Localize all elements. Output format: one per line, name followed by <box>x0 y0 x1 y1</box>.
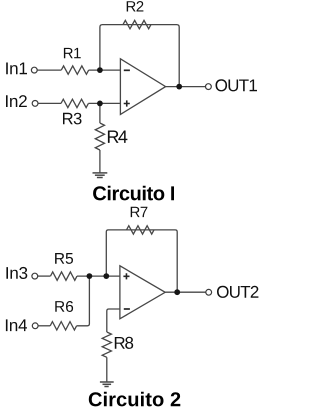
label In3 <box>6 267 27 279</box>
node D junction dot (R7 feedback tap) <box>103 273 109 279</box>
wire op-amp U2 output to OUT2 <box>165 291 206 293</box>
label In2 <box>6 95 27 107</box>
node OUT1 terminal <box>206 84 212 90</box>
label In1 <box>6 63 27 75</box>
wire R8 to ground <box>106 357 108 382</box>
label R7 <box>131 207 148 217</box>
node OUT2 terminal <box>206 289 212 295</box>
label In4 <box>6 319 27 331</box>
node B junction dot (R3/R4 tap) <box>97 101 103 107</box>
label R1 <box>64 48 81 58</box>
node A junction dot (R1/R2 tap) <box>97 67 103 73</box>
resistor R8 <box>102 332 111 357</box>
node feedback tap junction dot 1 <box>176 84 182 90</box>
label OUT2 <box>217 286 258 298</box>
wire node B to R4 <box>99 103 101 123</box>
wire op-amp U2 inverting input to R8 <box>107 309 120 332</box>
wire R4 to ground <box>99 150 101 173</box>
wire R1 to op-amp U1 inverting input <box>89 69 121 71</box>
caption Circuito 2 <box>89 392 181 407</box>
op-amp U1 <box>120 59 165 115</box>
op-amp U2 <box>120 266 165 319</box>
node In2 terminal <box>32 101 38 107</box>
node feedback tap junction dot 2 <box>174 289 180 295</box>
wire feedback loop R7 <box>106 230 177 292</box>
wire In1 to R1 <box>37 69 61 71</box>
op-amp U1 minus sign <box>124 69 130 71</box>
caption Circuito I <box>93 186 174 201</box>
resistor R5 <box>51 272 78 280</box>
op-amp U2 minus sign <box>124 308 130 310</box>
label R2 <box>127 1 144 12</box>
resistor R7 <box>127 226 155 234</box>
label R4 <box>108 131 128 143</box>
node In4 terminal <box>32 323 38 329</box>
wire In2 to R3 <box>38 102 61 104</box>
wire op-amp U1 output to OUT1 <box>166 86 206 88</box>
resistor R4 <box>95 123 104 150</box>
node C junction dot (R5/R6 join) <box>87 273 93 279</box>
wire R3 to op-amp U1 non-inverting input <box>88 102 120 104</box>
op-amp U1 plus sign <box>124 100 130 106</box>
wire In4 to R6 <box>38 325 50 327</box>
label OUT1 <box>216 79 258 91</box>
resistor R1 <box>61 66 88 74</box>
label R6 <box>55 301 73 312</box>
label R8 <box>115 337 133 349</box>
resistor R6 <box>50 322 76 330</box>
label R3 <box>63 113 82 125</box>
label R5 <box>55 253 73 264</box>
node In1 terminal <box>31 67 37 73</box>
wire In3 to R5 <box>38 275 51 277</box>
op-amp U2 plus sign <box>123 273 129 279</box>
wire R5 to op-amp U2 non-inverting input <box>77 275 120 277</box>
wire feedback loop R2 <box>100 25 179 87</box>
wire R6 riser to node C <box>77 276 90 326</box>
ground (circuit 1) <box>93 173 108 178</box>
resistor R2 <box>123 20 151 28</box>
ground (circuit 2) <box>100 382 114 387</box>
node In3 terminal <box>32 273 38 279</box>
resistor R3 <box>61 99 88 107</box>
